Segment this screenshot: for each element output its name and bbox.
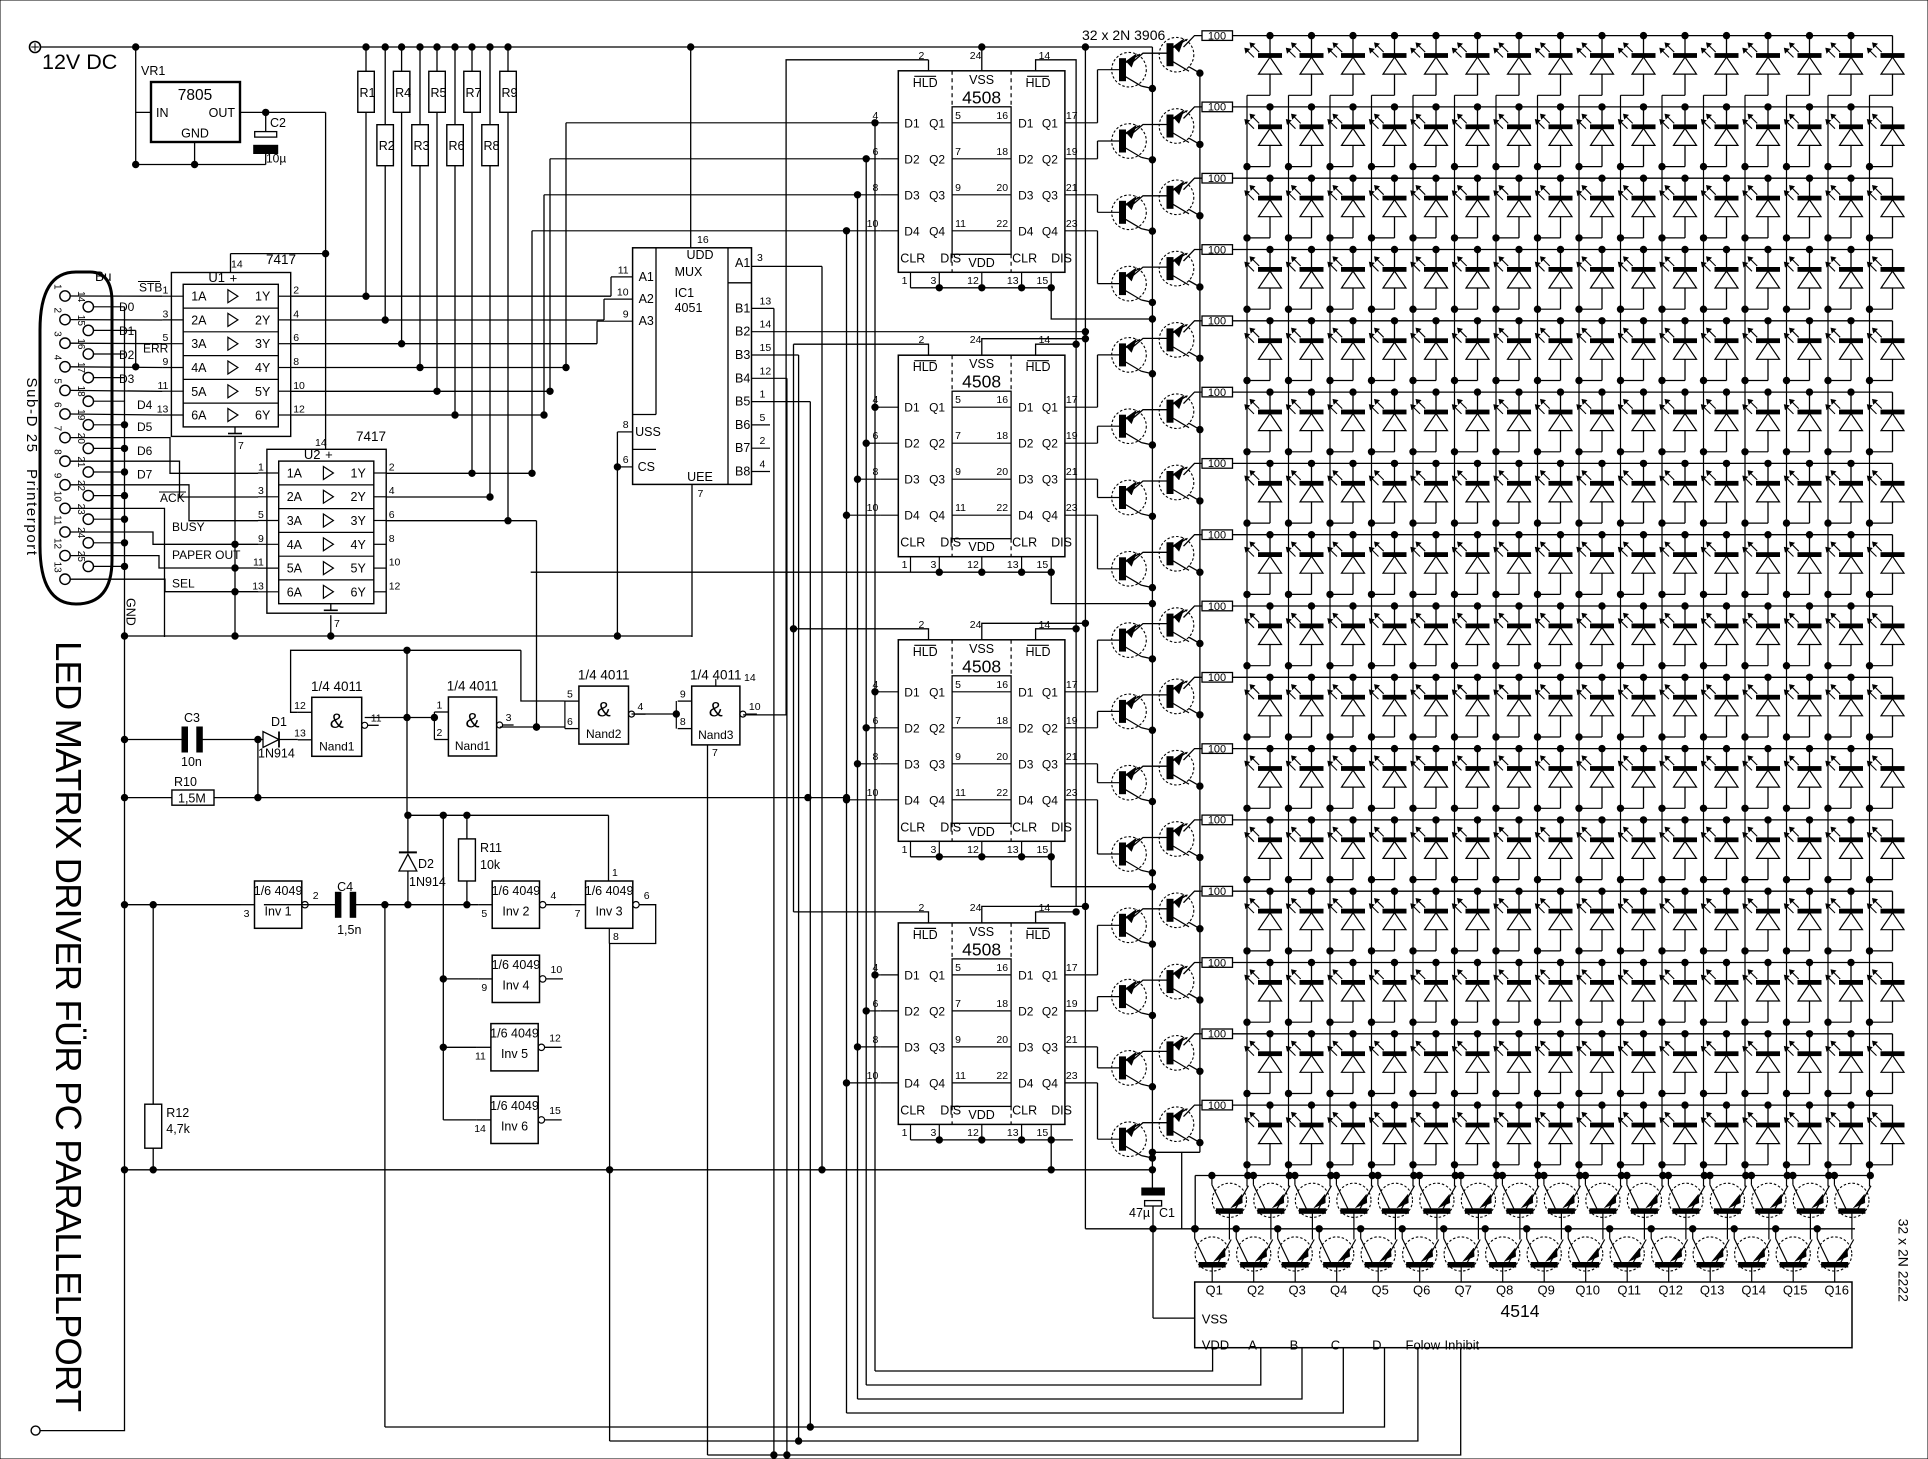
- svg-text:R4: R4: [395, 86, 411, 100]
- svg-text:100: 100: [1208, 1029, 1226, 1041]
- svg-text:Nand3: Nand3: [698, 728, 734, 742]
- svg-text:B2: B2: [735, 325, 750, 339]
- svg-text:Q4: Q4: [929, 224, 945, 238]
- svg-text:2Y: 2Y: [255, 313, 271, 327]
- svg-text:D3: D3: [119, 372, 135, 386]
- svg-text:10: 10: [52, 491, 63, 503]
- svg-text:3A: 3A: [191, 337, 207, 351]
- svg-text:1/4 4011: 1/4 4011: [447, 679, 499, 694]
- svg-text:C: C: [1331, 1338, 1340, 1353]
- svg-text:7: 7: [698, 488, 704, 500]
- svg-text:12: 12: [549, 1033, 561, 1045]
- svg-text:100: 100: [1208, 387, 1226, 399]
- svg-text:R9: R9: [502, 86, 518, 100]
- svg-text:A: A: [1248, 1338, 1257, 1353]
- svg-text:D2: D2: [418, 857, 434, 871]
- svg-text:3A: 3A: [287, 514, 303, 528]
- svg-text:D4: D4: [904, 1076, 920, 1090]
- svg-text:1/6 4049: 1/6 4049: [492, 958, 541, 972]
- svg-text:VDD: VDD: [968, 540, 994, 554]
- svg-text:9: 9: [680, 689, 686, 701]
- svg-text:10: 10: [389, 557, 401, 569]
- svg-text:HLD: HLD: [913, 928, 938, 942]
- svg-text:6: 6: [389, 509, 395, 521]
- svg-text:B1: B1: [735, 301, 750, 315]
- svg-text:Q3: Q3: [929, 473, 945, 487]
- svg-text:100: 100: [1208, 458, 1226, 470]
- svg-text:10: 10: [867, 502, 879, 514]
- svg-text:1: 1: [902, 275, 908, 287]
- svg-text:1: 1: [258, 462, 264, 474]
- svg-text:LED MATRIX DRIVER FÜR PC PARAL: LED MATRIX DRIVER FÜR PC PARALLELPORT: [48, 641, 89, 1412]
- svg-text:Bu: Bu: [95, 269, 112, 284]
- svg-text:12: 12: [967, 844, 979, 856]
- svg-text:D3: D3: [904, 473, 920, 487]
- svg-text:HLD: HLD: [1025, 645, 1050, 659]
- svg-text:9: 9: [623, 309, 629, 321]
- svg-text:&: &: [597, 698, 611, 721]
- svg-text:HLD: HLD: [913, 360, 938, 374]
- svg-text:22: 22: [996, 502, 1008, 514]
- svg-text:Q4: Q4: [1042, 509, 1058, 523]
- svg-text:D2: D2: [1018, 721, 1034, 735]
- svg-text:6: 6: [567, 716, 573, 728]
- svg-text:5: 5: [760, 412, 766, 424]
- svg-text:Q1: Q1: [1042, 968, 1058, 982]
- svg-text:1/6 4049: 1/6 4049: [490, 1027, 539, 1041]
- svg-text:12: 12: [967, 1127, 979, 1139]
- svg-text:12: 12: [967, 275, 979, 287]
- svg-text:11: 11: [618, 264, 629, 276]
- svg-text:4: 4: [872, 962, 878, 974]
- svg-text:+: +: [325, 447, 333, 462]
- svg-text:Q3: Q3: [929, 188, 945, 202]
- svg-text:13: 13: [1007, 559, 1019, 571]
- svg-text:D6: D6: [137, 444, 153, 458]
- svg-text:8: 8: [872, 1034, 878, 1046]
- svg-text:Q4: Q4: [1042, 793, 1058, 807]
- svg-text:C3: C3: [184, 711, 200, 725]
- svg-text:22: 22: [75, 480, 86, 492]
- svg-text:Q3: Q3: [1042, 757, 1058, 771]
- svg-text:13: 13: [1007, 844, 1019, 856]
- svg-text:DIS: DIS: [940, 1103, 961, 1117]
- svg-text:4: 4: [638, 701, 644, 713]
- svg-text:10n: 10n: [181, 755, 202, 769]
- svg-text:1/4 4011: 1/4 4011: [578, 668, 630, 683]
- svg-text:18: 18: [996, 715, 1008, 727]
- svg-text:5: 5: [955, 962, 961, 974]
- svg-text:17: 17: [75, 362, 86, 374]
- svg-text:7: 7: [955, 715, 961, 727]
- svg-text:DIS: DIS: [940, 251, 961, 265]
- svg-text:CLR: CLR: [1012, 536, 1037, 550]
- svg-text:4A: 4A: [191, 361, 207, 375]
- svg-text:5: 5: [567, 689, 573, 701]
- svg-text:Q11: Q11: [1617, 1283, 1641, 1298]
- svg-text:12: 12: [760, 365, 772, 377]
- svg-text:4: 4: [872, 110, 878, 122]
- svg-text:OUT: OUT: [209, 106, 236, 120]
- svg-text:Sub-D 25: Sub-D 25: [23, 378, 40, 454]
- svg-text:DIS: DIS: [940, 536, 961, 550]
- svg-text:Q4: Q4: [929, 793, 945, 807]
- svg-text:19: 19: [75, 409, 86, 421]
- svg-text:16: 16: [996, 394, 1008, 406]
- svg-text:B8: B8: [735, 465, 750, 479]
- svg-text:24: 24: [970, 334, 982, 346]
- svg-text:12: 12: [389, 580, 401, 592]
- svg-text:HLD: HLD: [913, 76, 938, 90]
- svg-text:D4: D4: [904, 224, 920, 238]
- svg-text:9: 9: [955, 466, 961, 478]
- svg-text:BUSY: BUSY: [172, 520, 205, 534]
- svg-text:1: 1: [163, 285, 169, 297]
- svg-text:Q13: Q13: [1700, 1283, 1725, 1298]
- svg-text:UDD: UDD: [686, 248, 713, 262]
- svg-text:1: 1: [902, 1127, 908, 1139]
- svg-text:15: 15: [760, 342, 772, 354]
- svg-text:5Y: 5Y: [351, 562, 367, 576]
- svg-text:D3: D3: [1018, 1040, 1034, 1054]
- svg-text:&: &: [330, 710, 344, 733]
- svg-text:9: 9: [52, 473, 63, 479]
- svg-text:22: 22: [996, 1070, 1008, 1082]
- svg-text:B6: B6: [735, 418, 750, 432]
- svg-text:6: 6: [52, 402, 63, 408]
- svg-text:20: 20: [75, 433, 86, 445]
- svg-text:2A: 2A: [287, 490, 303, 504]
- svg-text:1N914: 1N914: [409, 875, 446, 889]
- svg-text:CS: CS: [638, 460, 655, 474]
- svg-text:1: 1: [760, 389, 766, 401]
- svg-text:Inv 6: Inv 6: [501, 1120, 528, 1134]
- svg-text:9: 9: [955, 182, 961, 194]
- svg-text:12: 12: [293, 404, 305, 416]
- svg-text:1Y: 1Y: [255, 290, 271, 304]
- svg-text:3: 3: [258, 485, 264, 497]
- svg-text:DIS: DIS: [1051, 536, 1072, 550]
- svg-text:11: 11: [955, 1070, 966, 1082]
- svg-text:13: 13: [157, 404, 169, 416]
- svg-text:D1: D1: [1018, 116, 1034, 130]
- svg-text:VDD: VDD: [968, 1108, 994, 1122]
- svg-text:16: 16: [996, 110, 1008, 122]
- svg-text:7417: 7417: [266, 252, 296, 267]
- svg-text:15: 15: [1037, 275, 1049, 287]
- svg-text:D3: D3: [904, 757, 920, 771]
- svg-text:Inv 2: Inv 2: [502, 905, 529, 919]
- svg-text:D3: D3: [1018, 757, 1034, 771]
- svg-text:1Y: 1Y: [351, 467, 367, 481]
- svg-text:6: 6: [623, 454, 629, 466]
- svg-text:18: 18: [996, 146, 1008, 158]
- svg-text:Q4: Q4: [1042, 1076, 1058, 1090]
- svg-text:10: 10: [749, 701, 761, 713]
- svg-text:100: 100: [1208, 1100, 1226, 1112]
- svg-text:D2: D2: [904, 721, 920, 735]
- svg-text:CLR: CLR: [1012, 1103, 1037, 1117]
- svg-text:14: 14: [231, 259, 243, 271]
- svg-text:47µ: 47µ: [1129, 1206, 1150, 1220]
- svg-text:D3: D3: [904, 1040, 920, 1054]
- svg-text:12: 12: [294, 700, 306, 712]
- svg-text:Q2: Q2: [1042, 721, 1058, 735]
- svg-text:11: 11: [955, 502, 966, 514]
- svg-text:D1: D1: [904, 968, 920, 982]
- svg-text:D1: D1: [904, 116, 920, 130]
- svg-text:4: 4: [293, 308, 299, 320]
- svg-text:2A: 2A: [191, 313, 207, 327]
- svg-text:VR1: VR1: [141, 64, 165, 78]
- svg-text:7: 7: [575, 908, 581, 920]
- svg-text:D4: D4: [1018, 793, 1034, 807]
- svg-text:D1: D1: [1018, 401, 1034, 415]
- svg-text:R2: R2: [379, 139, 395, 153]
- svg-text:CLR: CLR: [900, 251, 925, 265]
- svg-text:A3: A3: [639, 314, 654, 328]
- svg-text:R1: R1: [360, 86, 376, 100]
- svg-text:7805: 7805: [178, 87, 212, 104]
- svg-text:A1: A1: [639, 270, 654, 284]
- svg-text:D7: D7: [137, 468, 153, 482]
- svg-text:6: 6: [872, 146, 878, 158]
- svg-text:3: 3: [52, 331, 63, 337]
- svg-text:32 x 2N 2222: 32 x 2N 2222: [1896, 1219, 1912, 1302]
- svg-text:Q2: Q2: [929, 152, 945, 166]
- svg-text:8: 8: [613, 931, 619, 943]
- svg-text:U1: U1: [208, 270, 225, 285]
- svg-text:Q1: Q1: [1042, 685, 1058, 699]
- svg-text:MUX: MUX: [675, 265, 703, 279]
- svg-text:DIS: DIS: [940, 820, 961, 834]
- svg-text:3: 3: [244, 908, 250, 920]
- svg-text:5: 5: [52, 378, 63, 384]
- svg-text:Q9: Q9: [1538, 1283, 1555, 1298]
- svg-text:100: 100: [1208, 886, 1226, 898]
- svg-text:Q1: Q1: [929, 968, 945, 982]
- svg-text:15: 15: [549, 1105, 561, 1117]
- svg-text:100: 100: [1208, 815, 1226, 827]
- svg-text:Q8: Q8: [1496, 1283, 1513, 1298]
- svg-text:11: 11: [157, 380, 168, 392]
- svg-text:22: 22: [996, 787, 1008, 799]
- svg-text:B3: B3: [735, 348, 750, 362]
- svg-text:7: 7: [334, 618, 340, 630]
- svg-text:Q1: Q1: [1042, 401, 1058, 415]
- svg-text:8: 8: [293, 356, 299, 368]
- svg-text:3: 3: [930, 559, 936, 571]
- svg-text:R11: R11: [480, 841, 502, 855]
- svg-text:Q3: Q3: [929, 1040, 945, 1054]
- svg-text:+: +: [230, 270, 238, 285]
- svg-text:18: 18: [996, 998, 1008, 1010]
- svg-text:15: 15: [1037, 844, 1049, 856]
- svg-text:10: 10: [293, 380, 305, 392]
- svg-text:Q1: Q1: [1042, 116, 1058, 130]
- svg-text:100: 100: [1208, 102, 1226, 114]
- svg-text:Q4: Q4: [1042, 224, 1058, 238]
- svg-text:4508: 4508: [962, 939, 1001, 959]
- svg-text:Q1: Q1: [929, 116, 945, 130]
- svg-text:Q2: Q2: [929, 1004, 945, 1018]
- svg-text:&: &: [465, 710, 479, 733]
- svg-text:13: 13: [1007, 275, 1019, 287]
- svg-text:4: 4: [551, 890, 557, 902]
- svg-text:7: 7: [52, 426, 63, 432]
- svg-text:4508: 4508: [962, 372, 1001, 392]
- svg-text:1/6 4049: 1/6 4049: [585, 884, 634, 898]
- svg-text:1A: 1A: [191, 290, 207, 304]
- svg-text:A1: A1: [735, 256, 750, 270]
- svg-text:D2: D2: [1018, 1004, 1034, 1018]
- svg-text:C4: C4: [337, 880, 353, 894]
- svg-text:R5: R5: [431, 86, 447, 100]
- svg-text:100: 100: [1208, 316, 1226, 328]
- svg-text:11: 11: [371, 712, 382, 724]
- svg-text:11: 11: [955, 218, 966, 230]
- svg-text:Q3: Q3: [1042, 473, 1058, 487]
- svg-text:9: 9: [163, 356, 169, 368]
- svg-text:4: 4: [760, 459, 766, 471]
- svg-text:1: 1: [902, 559, 908, 571]
- svg-text:VSS: VSS: [969, 925, 994, 939]
- svg-text:16: 16: [996, 962, 1008, 974]
- svg-text:13: 13: [252, 580, 264, 592]
- svg-text:23: 23: [1066, 1070, 1078, 1082]
- svg-text:D2: D2: [1018, 152, 1034, 166]
- svg-text:Inv 1: Inv 1: [265, 905, 292, 919]
- svg-text:Q7: Q7: [1455, 1283, 1472, 1298]
- svg-text:D1: D1: [904, 401, 920, 415]
- svg-text:24: 24: [970, 50, 982, 62]
- svg-text:D: D: [1372, 1338, 1381, 1353]
- svg-text:5: 5: [258, 509, 264, 521]
- svg-text:STB: STB: [139, 281, 162, 295]
- svg-text:10µ: 10µ: [266, 152, 286, 166]
- svg-text:16: 16: [996, 679, 1008, 691]
- svg-text:B4: B4: [735, 371, 750, 385]
- svg-text:1N914: 1N914: [258, 747, 295, 761]
- svg-text:CLR: CLR: [1012, 251, 1037, 265]
- svg-text:5: 5: [481, 908, 487, 920]
- svg-text:12: 12: [967, 559, 979, 571]
- svg-text:DIS: DIS: [1051, 1103, 1072, 1117]
- svg-text:ACK: ACK: [160, 491, 185, 505]
- svg-text:21: 21: [1066, 1034, 1078, 1046]
- svg-text:D2: D2: [904, 437, 920, 451]
- svg-text:5A: 5A: [287, 562, 303, 576]
- svg-text:14: 14: [75, 291, 86, 303]
- svg-text:HLD: HLD: [1025, 360, 1050, 374]
- svg-text:D2: D2: [1018, 437, 1034, 451]
- svg-text:3: 3: [163, 308, 169, 320]
- svg-text:D4: D4: [1018, 509, 1034, 523]
- svg-text:CLR: CLR: [900, 820, 925, 834]
- svg-text:1/6 4049: 1/6 4049: [254, 884, 303, 898]
- svg-text:Q3: Q3: [1289, 1283, 1306, 1298]
- svg-text:B: B: [1290, 1338, 1299, 1353]
- svg-text:15: 15: [75, 315, 86, 327]
- svg-text:12V DC: 12V DC: [42, 50, 117, 74]
- svg-text:D3: D3: [1018, 188, 1034, 202]
- svg-text:D4: D4: [1018, 1076, 1034, 1090]
- svg-text:6: 6: [872, 430, 878, 442]
- svg-text:Nand1: Nand1: [319, 739, 355, 753]
- svg-text:Q3: Q3: [929, 757, 945, 771]
- svg-text:D2: D2: [904, 152, 920, 166]
- svg-text:Q4: Q4: [1330, 1283, 1347, 1298]
- svg-text:IC1: IC1: [675, 286, 695, 300]
- svg-text:11: 11: [253, 557, 264, 569]
- svg-text:6A: 6A: [287, 585, 303, 599]
- svg-text:1/6 4049: 1/6 4049: [490, 1099, 539, 1113]
- svg-text:PAPER OUT: PAPER OUT: [172, 548, 241, 562]
- svg-text:7: 7: [955, 430, 961, 442]
- svg-text:R6: R6: [449, 139, 465, 153]
- svg-text:13: 13: [1007, 1127, 1019, 1139]
- svg-text:B7: B7: [735, 441, 750, 455]
- svg-text:5A: 5A: [191, 385, 207, 399]
- svg-text:Q2: Q2: [1042, 1004, 1058, 1018]
- svg-text:4,7k: 4,7k: [166, 1122, 190, 1136]
- svg-text:1/4 4011: 1/4 4011: [311, 679, 363, 694]
- svg-text:Q12: Q12: [1658, 1283, 1683, 1298]
- svg-text:Q16: Q16: [1824, 1283, 1849, 1298]
- svg-text:10: 10: [867, 218, 879, 230]
- svg-text:18: 18: [996, 430, 1008, 442]
- svg-text:10: 10: [867, 1070, 879, 1082]
- svg-text:CLR: CLR: [1012, 820, 1037, 834]
- svg-text:1: 1: [52, 284, 63, 290]
- svg-text:GND: GND: [181, 127, 209, 141]
- svg-text:9: 9: [955, 1034, 961, 1046]
- svg-text:3: 3: [757, 252, 763, 264]
- svg-text:Q5: Q5: [1372, 1283, 1389, 1298]
- svg-text:100: 100: [1208, 530, 1226, 542]
- svg-text:100: 100: [1208, 743, 1226, 755]
- svg-text:1,5n: 1,5n: [337, 923, 361, 937]
- svg-text:Inv 4: Inv 4: [502, 979, 529, 993]
- svg-text:6: 6: [644, 890, 650, 902]
- svg-text:12: 12: [52, 538, 63, 550]
- svg-text:5: 5: [955, 110, 961, 122]
- svg-text:22: 22: [996, 218, 1008, 230]
- svg-text:Q10: Q10: [1575, 1283, 1600, 1298]
- svg-text:Inv 5: Inv 5: [501, 1047, 528, 1061]
- svg-text:D1: D1: [904, 685, 920, 699]
- svg-text:8: 8: [52, 449, 63, 455]
- svg-text:R7: R7: [466, 86, 482, 100]
- svg-text:25: 25: [75, 551, 86, 563]
- svg-text:3: 3: [930, 1127, 936, 1139]
- svg-text:13: 13: [760, 295, 772, 307]
- svg-text:VSS: VSS: [969, 642, 994, 656]
- svg-text:D5: D5: [137, 420, 153, 434]
- svg-text:B5: B5: [735, 395, 750, 409]
- svg-text:7: 7: [955, 998, 961, 1010]
- svg-text:D1: D1: [1018, 968, 1034, 982]
- svg-text:11: 11: [955, 787, 966, 799]
- svg-text:5Y: 5Y: [255, 385, 271, 399]
- svg-text:R3: R3: [414, 139, 430, 153]
- svg-text:C1: C1: [1159, 1206, 1175, 1220]
- svg-text:6: 6: [872, 998, 878, 1010]
- svg-text:2: 2: [52, 308, 63, 314]
- svg-text:Q2: Q2: [1042, 152, 1058, 166]
- svg-text:D4: D4: [904, 793, 920, 807]
- svg-text:6: 6: [293, 332, 299, 344]
